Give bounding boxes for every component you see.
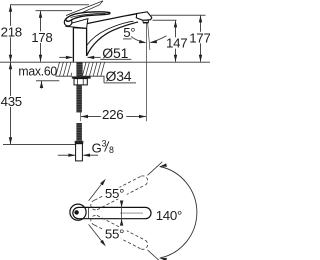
svg-text:435: 435 — [1, 94, 22, 109]
svg-text:Ø51: Ø51 — [102, 45, 128, 61]
svg-text:218: 218 — [1, 24, 22, 39]
svg-text:8: 8 — [109, 145, 114, 155]
svg-text:140°: 140° — [156, 208, 182, 223]
svg-text:55°: 55° — [105, 186, 124, 201]
svg-text:G: G — [92, 141, 102, 156]
svg-text:55°: 55° — [105, 226, 124, 241]
svg-text:178: 178 — [31, 30, 52, 45]
svg-text:147: 147 — [166, 36, 187, 51]
svg-text:Ø34: Ø34 — [106, 68, 132, 84]
svg-text:177: 177 — [189, 30, 210, 45]
svg-text:3: 3 — [102, 138, 107, 148]
svg-text:226: 226 — [102, 107, 123, 122]
svg-text:max.60: max.60 — [18, 63, 57, 78]
svg-text:5°: 5° — [123, 25, 135, 40]
